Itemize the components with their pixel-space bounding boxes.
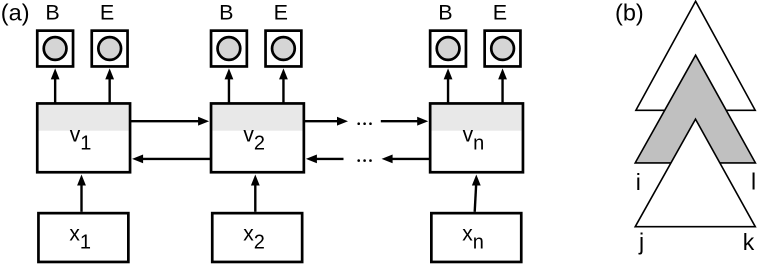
arrow v2 to E2: [279, 68, 288, 103]
gray triangle (span i-l): [635, 55, 755, 163]
svg-text:B: B: [219, 1, 233, 25]
svg-text:i: i: [636, 169, 641, 195]
svg-text:k: k: [743, 229, 755, 255]
rnn cell box vn: [430, 103, 523, 172]
circle in E1: [98, 37, 121, 60]
circle in E2: [272, 37, 295, 60]
circle in B3: [437, 37, 460, 60]
svg-text:E: E: [493, 1, 507, 25]
circle in B2: [218, 37, 241, 60]
output square E2: [266, 31, 302, 67]
svg-text:B: B: [45, 1, 59, 25]
arrow vn to dots (backward): [382, 155, 430, 164]
bottom white triangle (span j-k): [635, 119, 755, 227]
output square E1: [92, 31, 128, 67]
rnn cell box v1: [37, 103, 130, 172]
arrow v2 to v1 (backward): [132, 155, 211, 164]
dots forward: [357, 122, 371, 125]
arrow dots to vn (forward): [381, 117, 428, 126]
output square B1: [37, 31, 73, 67]
arrow v1 to v2 (forward): [130, 117, 209, 126]
svg-text:(b): (b): [615, 0, 644, 25]
output square B3: [430, 31, 466, 67]
input box xn: [431, 213, 521, 262]
arrow vn to E3: [498, 68, 507, 103]
arrow v2 to B2: [225, 68, 234, 103]
svg-text:B: B: [438, 1, 452, 25]
arrow vn to B3: [444, 68, 453, 103]
arrow v1 to E1: [105, 68, 114, 103]
arrow x2 to v2: [251, 175, 260, 212]
arrow x1 to v1: [77, 175, 86, 212]
rnn cell box v2: [211, 103, 304, 172]
svg-text:j: j: [638, 228, 644, 254]
dots backward: [357, 159, 371, 162]
svg-text:(a): (a): [1, 0, 30, 26]
input box x1: [38, 213, 128, 262]
svg-text:E: E: [100, 1, 114, 25]
svg-text:E: E: [274, 1, 288, 25]
arrow dots to v2 (backward): [306, 155, 344, 164]
input box x2: [212, 213, 302, 262]
output square E3: [485, 31, 521, 67]
arrow v1 to B1: [51, 68, 60, 103]
arrow xn to vn: [472, 175, 481, 212]
output square B2: [211, 31, 247, 67]
circle in E3: [491, 37, 514, 60]
top white triangle: [636, 1, 755, 110]
circle in B1: [44, 37, 67, 60]
svg-text:l: l: [751, 168, 756, 194]
arrow v2 to dots (forward): [304, 117, 348, 126]
